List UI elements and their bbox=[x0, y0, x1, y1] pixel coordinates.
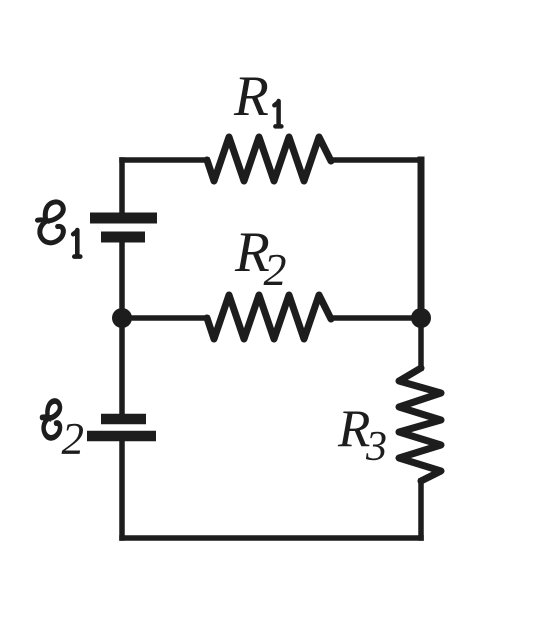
resistor R2 zigzag bbox=[207, 295, 331, 339]
battery E1 long plate bbox=[90, 213, 157, 224]
wire: bottom rail bbox=[122, 535, 421, 541]
svg-text:R: R bbox=[233, 65, 269, 128]
wire: top rail right segment bbox=[331, 157, 421, 163]
node left (junction dot) bbox=[112, 308, 132, 328]
wire: right rail (top corner to right node) bbox=[418, 160, 425, 318]
label E2 (script E) bbox=[42, 401, 60, 438]
wire: top rail left segment bbox=[122, 157, 207, 163]
wire: right rail (node to resistor R3) bbox=[418, 318, 424, 368]
svg-text:2: 2 bbox=[264, 244, 287, 295]
battery E2 long plate bbox=[87, 431, 156, 442]
battery E2 short plate bbox=[101, 414, 146, 425]
label R1 subscript 1 bbox=[274, 101, 281, 126]
label E1 (script E) bbox=[38, 202, 64, 243]
wire: middle rail left segment bbox=[122, 315, 207, 321]
wire: middle rail right segment bbox=[331, 315, 421, 321]
wire: left rail top (corner to battery E1) bbox=[119, 160, 125, 214]
svg-text:3: 3 bbox=[365, 424, 387, 470]
wire: left rail (battery E2 to bottom corner) bbox=[119, 441, 125, 538]
battery E1 short plate bbox=[101, 232, 145, 243]
svg-text:2: 2 bbox=[62, 414, 85, 464]
wire: left rail (battery E1 to node) bbox=[119, 241, 125, 318]
node right (junction dot) bbox=[411, 308, 431, 328]
wire: left rail (node to battery E2) bbox=[119, 318, 125, 415]
resistor R3 zigzag bbox=[399, 368, 441, 481]
resistor R1 zigzag bbox=[207, 137, 331, 181]
wire: right rail (resistor R3 to bottom corner) bbox=[418, 481, 424, 538]
label E1 subscript 1 bbox=[73, 230, 80, 257]
